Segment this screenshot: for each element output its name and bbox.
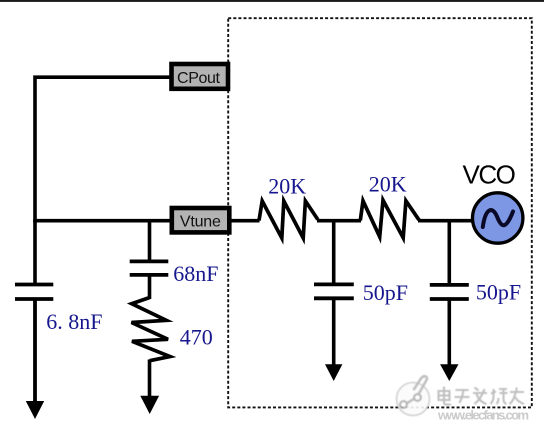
dashed region boundary (loop-filter box) xyxy=(228,18,532,407)
wire: CPout horizontal (corner to CPout box) xyxy=(35,77,170,284)
wire: C2 to R3 xyxy=(148,275,152,299)
svg-text:20K: 20K xyxy=(369,172,407,197)
wire: junction drop to 50pF #2 xyxy=(447,221,451,285)
wire: R1 to R2 with junction to C-50pF#1 xyxy=(317,219,361,223)
ground arrow (C1) xyxy=(26,401,44,419)
wire: R3 bottom lead xyxy=(148,360,152,398)
svg-text:VCO: VCO xyxy=(463,160,515,190)
wire: C1 bottom lead xyxy=(33,299,37,403)
ground arrow (C3) xyxy=(325,364,342,381)
svg-text:Vtune: Vtune xyxy=(180,214,221,231)
page top border line xyxy=(0,0,544,2)
VCO circle U1 xyxy=(473,193,523,243)
capacitor C3 50pF plates xyxy=(314,282,354,286)
svg-text:6. 8nF: 6. 8nF xyxy=(46,309,102,334)
watermark chinese characters xyxy=(439,387,525,405)
wire: Vtune horizontal (left rail to Vtune box) xyxy=(33,219,169,223)
svg-text:50pF: 50pF xyxy=(476,280,521,305)
ground arrow (C4) xyxy=(440,364,458,381)
svg-text:www.elecfans.com: www.elecfans.com xyxy=(437,408,529,423)
wire: C3 bottom lead xyxy=(332,298,336,366)
ground arrow (R3) xyxy=(140,396,159,414)
capacitor C1 6.8nF plates xyxy=(15,283,53,287)
VCO sine symbol xyxy=(483,210,513,227)
wire: C4 bottom lead xyxy=(447,299,451,366)
wire: R2 to VCO with junction to C-50pF#2 xyxy=(418,219,473,223)
capacitor C4 50pF plates xyxy=(430,283,469,287)
resistor R3 470 (vertical sawtooth) xyxy=(132,298,171,361)
resistor R2 20K (sawtooth) xyxy=(360,200,419,238)
watermark logo circle xyxy=(397,376,430,415)
wire: junction drop to 68nF xyxy=(148,221,152,262)
svg-text:68nF: 68nF xyxy=(173,261,218,286)
wire: Vtune box to resistor R1 xyxy=(230,219,260,223)
svg-text:470: 470 xyxy=(180,324,213,349)
capacitor C2 68nF plates xyxy=(130,259,169,263)
svg-text:CPout: CPout xyxy=(177,70,220,87)
resistor R1 20K (sawtooth) xyxy=(259,201,318,238)
wire: junction drop to 50pF #1 xyxy=(332,221,336,285)
node CPout (port box) xyxy=(172,64,229,89)
svg-text:20K: 20K xyxy=(268,173,306,198)
svg-text:50pF: 50pF xyxy=(363,280,408,305)
node Vtune (port box) xyxy=(172,208,230,232)
